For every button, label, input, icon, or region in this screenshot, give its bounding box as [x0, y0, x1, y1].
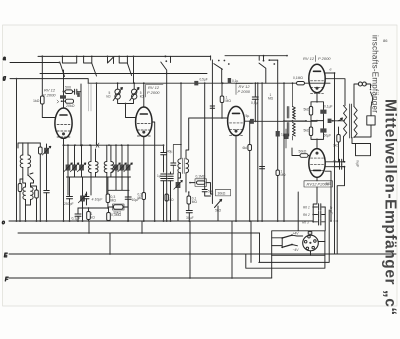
switch S5: [211, 56, 230, 194]
resistor R20: [165, 194, 168, 201]
wire bus-E: [9, 253, 396, 255]
capacitor C-Roe1: [313, 206, 325, 208]
switch S6: [259, 55, 278, 83]
switch S1: [60, 56, 77, 77]
svg-text:4·10µF: 4·10µF: [92, 198, 104, 202]
svg-text:0,1µF: 0,1µF: [324, 105, 333, 109]
capacitor C9b: [161, 179, 167, 181]
potentiometer P2: [132, 89, 137, 94]
capacitor C10a: [168, 174, 174, 176]
resistor R3: [66, 99, 74, 103]
capacitor C13: [252, 97, 258, 99]
wire V5 right3: [325, 171, 331, 221]
wire V2 anode: [143, 83, 145, 107]
svg-text:MΩ: MΩ: [192, 200, 198, 204]
wire v x89: [88, 221, 90, 233]
svg-text:o: o: [2, 220, 5, 226]
svg-text:Rö 2: Rö 2: [303, 213, 310, 217]
svg-text:0,1µF: 0,1µF: [72, 217, 81, 221]
wire V5 right1: [325, 161, 344, 163]
wire V1-anode-top: [63, 70, 65, 108]
output box2: [356, 144, 371, 156]
wire antenna-top: [18, 143, 40, 155]
trimmer CT1: [66, 165, 71, 171]
switch S7: [366, 84, 373, 98]
svg-text:30kΩ: 30kΩ: [113, 211, 121, 215]
wire V4 right screen: [325, 79, 345, 106]
wire T3: [284, 83, 306, 140]
resistor R8 boxed: [197, 181, 206, 184]
capacitor C-blob1 0,5uF: [194, 81, 198, 86]
svg-text:+4V: +4V: [293, 232, 300, 236]
capacitor C22 grid: [210, 106, 214, 108]
wire T4 primary bottom: [343, 137, 345, 162]
svg-text:30µF: 30µF: [186, 216, 194, 220]
trimmer CT7: [176, 182, 181, 188]
capacitor C-ant 500pF: [44, 191, 50, 193]
wire bus-a: [38, 55, 287, 58]
transformer T3 core: [287, 107, 289, 137]
resistor R-ant2: [35, 190, 39, 198]
resistor R19: [142, 193, 145, 200]
resistor R2 500: [65, 90, 73, 94]
capacitor C5: [125, 197, 131, 199]
capacitor C20: [340, 164, 342, 169]
capacitor C11: [202, 190, 207, 192]
switch S4: [161, 56, 171, 73]
tube V5 RV12 P2000: [309, 149, 325, 178]
svg-text:MΩ: MΩ: [138, 196, 144, 200]
wire S4 drop: [166, 74, 168, 222]
wire rail y145.2: [64, 144, 164, 146]
capacitor C-Roe3: [313, 221, 325, 223]
wire v x259.5: [259, 233, 261, 262]
resistor R15 50kOhm: [300, 154, 308, 158]
switch S2: [83, 56, 97, 77]
svg-text:MΩ: MΩ: [268, 97, 274, 101]
svg-text:0,5µ: 0,5µ: [251, 101, 258, 105]
resistor R7 30kOhm: [114, 205, 124, 209]
resistor R14 5kOhm: [309, 127, 312, 136]
resistor R18: [276, 170, 279, 176]
svg-text:40µ: 40µ: [167, 150, 173, 154]
wire caps right: [324, 207, 326, 231]
wire x81: [80, 84, 82, 145]
wire T2 secondary: [186, 118, 228, 159]
wire V4 bottom: [316, 93, 318, 102]
wire V5 bottom: [313, 177, 317, 221]
svg-text:in µF: in µF: [356, 160, 360, 167]
coil L1: [20, 155, 23, 168]
wire bus-o: [9, 220, 313, 222]
capacitor C21: [276, 131, 280, 137]
wire V3 anode right: [244, 120, 317, 122]
svg-text:MΩ: MΩ: [111, 199, 117, 203]
resistor R10 1MOhm: [220, 96, 224, 103]
svg-text:Rö 3: Rö 3: [302, 220, 309, 224]
transformer T3 coil upper: [293, 107, 296, 120]
svg-text:RV 12: RV 12: [303, 56, 315, 61]
crossing marker: [96, 143, 99, 147]
svg-text:0,1µ: 0,1µ: [232, 79, 238, 83]
wire v x133.5: [133, 56, 135, 83]
svg-text:5kΩ: 5kΩ: [215, 209, 221, 213]
svg-text:5kΩ: 5kΩ: [304, 129, 310, 133]
svg-text:0,1MΩ: 0,1MΩ: [293, 76, 303, 80]
capacitor C3 250pF: [67, 197, 73, 199]
svg-text:e: e: [330, 68, 332, 72]
resistor R13 5kOhm: [309, 107, 312, 116]
wire rail2 y177: [67, 176, 131, 178]
trimmer C4: [80, 196, 85, 202]
wire bus-mid: [40, 73, 207, 75]
svg-text:20kΩ: 20kΩ: [65, 104, 75, 108]
wire v x142: [141, 221, 143, 233]
svg-text:MΩ: MΩ: [281, 173, 287, 177]
wire bus-F: [9, 277, 272, 279]
wire left-vertical x16.5: [16, 79, 18, 221]
connector key nub: [308, 232, 312, 235]
transformer T4 core: [350, 104, 352, 138]
tube V4 RV12 P2000: [309, 64, 325, 93]
svg-text:50µ: 50µ: [208, 190, 214, 194]
resistor R4: [106, 194, 110, 203]
wire bus-o-return: [18, 232, 260, 234]
tube V3 RV12 P2000: [228, 106, 245, 135]
wire v x262: [261, 83, 263, 221]
svg-text:0,5µF: 0,5µF: [200, 78, 208, 82]
wire y208: [78, 207, 108, 209]
trimmer CT6: [126, 165, 131, 171]
svg-text:in µF: in µF: [329, 207, 333, 216]
resistor R-ant1: [18, 184, 22, 192]
wire x96.5: [96, 83, 98, 145]
H-network V4: wires: [311, 102, 324, 121]
transformer T2 primary: [178, 159, 181, 173]
svg-text:50kΩ: 50kΩ: [299, 150, 307, 154]
headphone jack: [358, 82, 362, 86]
wire bus-main: [88, 82, 330, 84]
arrow tap T4: [338, 118, 342, 121]
capacitor C12: [186, 211, 192, 213]
wire grid V1: [42, 56, 55, 117]
wire L3-top: [23, 181, 34, 188]
svg-text:1µ: 1µ: [157, 174, 161, 178]
wire x298: [297, 192, 299, 231]
capacitor C10b: [168, 179, 174, 181]
wire x284 vertical: [283, 83, 285, 221]
connector box: [272, 231, 325, 256]
capacitor C18: [284, 134, 289, 139]
capacitor C17 coupling2: [328, 119, 332, 123]
svg-text:250pF: 250pF: [64, 202, 74, 206]
resistor R17 box: [367, 116, 375, 125]
capacitor C16: [320, 128, 326, 132]
wire v x190: [189, 221, 191, 278]
connector socket: [303, 235, 319, 251]
svg-text:1kΩ: 1kΩ: [333, 144, 339, 148]
resistor R12 0.1MOhm: [297, 82, 305, 85]
wire T4 sec top to phones: [354, 84, 359, 107]
svg-text:86: 86: [383, 38, 388, 43]
wire bus-g-left: [10, 79, 88, 84]
wire output drop: [337, 167, 344, 254]
capacitor C-Roe2: [313, 214, 325, 216]
svg-text:P 2000: P 2000: [318, 56, 331, 61]
wire socket-right: [318, 241, 325, 243]
resistor R9: [187, 196, 191, 204]
capacitor C7: [161, 153, 167, 155]
resistor R16 1kOhm: [337, 135, 340, 143]
wire T2 bottoms: [178, 173, 186, 192]
resistor R1 1kOhm: [41, 96, 45, 104]
wire x88.5 faint: [88, 84, 90, 111]
wire a-stub: [10, 62, 60, 64]
wire v x110: [109, 233, 111, 254]
wire rail3 y190.3: [108, 177, 129, 190]
capacitor C8: [171, 163, 176, 165]
capacitor C6: [75, 214, 81, 216]
wire v x258: [257, 83, 259, 221]
svg-text:MΩ: MΩ: [226, 99, 232, 103]
resistor R-vert x40: [39, 147, 43, 154]
capacitor C-blob2: [228, 78, 231, 83]
capacitor C15: [320, 110, 326, 114]
wire V2 cathode: [143, 137, 145, 221]
svg-text:Rö 1: Rö 1: [303, 206, 310, 210]
wire v x277.7: [277, 60, 279, 221]
svg-text:50µF: 50µF: [324, 134, 332, 138]
transformer T2 core: [183, 158, 185, 174]
trimmer CT5: [120, 165, 125, 171]
capacitor C19: [340, 159, 342, 164]
coil L4: [31, 187, 34, 200]
wire L3L4-bottom: [26, 200, 31, 222]
svg-text:5kΩ: 5kΩ: [304, 108, 310, 112]
wire V1 cathode down: [63, 138, 65, 221]
wire V5 right2: [325, 166, 344, 168]
svg-text:P 2000: P 2000: [147, 90, 160, 95]
svg-text:g: g: [3, 76, 6, 82]
wire F-to-box: [271, 255, 273, 278]
svg-text:1kΩ: 1kΩ: [33, 99, 40, 103]
capacitor C23: [84, 197, 89, 199]
coil L5: [88, 162, 91, 173]
capacitor C2: [73, 91, 75, 93]
svg-text:inschafts-Empfänger: inschafts-Empfänger: [371, 35, 380, 113]
H-network V5-grid: [311, 121, 324, 149]
svg-text:P 2000: P 2000: [238, 89, 251, 94]
wire pots-bottom: [118, 99, 136, 117]
trimmer CT0: [44, 148, 49, 154]
svg-text:kΩ: kΩ: [91, 216, 96, 220]
coil L2: [28, 155, 31, 168]
trimmer CT4: [114, 165, 119, 171]
transformer T3 coil lower: [293, 123, 296, 136]
resistor R6: [107, 213, 111, 221]
svg-text:6kΩ: 6kΩ: [243, 146, 250, 150]
switch S3: [118, 56, 131, 76]
switch S+4V: [281, 237, 283, 239]
wire T2 primary top: [180, 83, 182, 159]
switch S2b: [108, 56, 114, 63]
svg-text:30kΩ: 30kΩ: [218, 191, 226, 195]
switch S-4V: [281, 246, 283, 248]
resistor R11 6kOhm: [248, 145, 252, 151]
transformer T2 secondary: [186, 159, 189, 173]
transformer T4 primary zigzag: [344, 106, 347, 137]
svg-text:−4V: −4V: [293, 248, 300, 252]
wire v x232: [231, 221, 233, 278]
potentiometer P3: [215, 199, 222, 207]
transformer T4 secondary zigzag: [354, 107, 357, 138]
coil L6: [104, 162, 107, 173]
svg-text:5µ: 5µ: [246, 114, 250, 118]
svg-text:P 2000: P 2000: [43, 93, 56, 98]
trimmer CT3: [79, 165, 84, 171]
svg-text:Mittelwellen-Empfänger „c“: Mittelwellen-Empfänger „c“: [382, 99, 399, 316]
wire box bottom outer2: [246, 254, 325, 268]
wire V2 right: [152, 122, 155, 221]
wire V3 cathode: [235, 136, 237, 221]
anode cap V1: [60, 95, 66, 98]
wire v x251: [250, 221, 252, 262]
svg-text:500: 500: [65, 86, 71, 90]
coil L3: [23, 187, 26, 200]
trimmer CT2: [72, 165, 77, 171]
wire socket-bottom: [310, 251, 312, 256]
wire V4 right anode: [325, 72, 334, 74]
capacitor C14 coupling: [250, 119, 254, 124]
svg-text:kΩ: kΩ: [107, 95, 112, 99]
tube V2 RV12 P2000: [136, 107, 152, 137]
wire L1L2-bottom: [23, 168, 28, 184]
svg-text:a: a: [3, 56, 6, 62]
switch S-band: [28, 173, 34, 181]
capacitor C9a: [161, 174, 167, 176]
resistor R5 1kOhm: [87, 212, 91, 220]
tube V1 RV12 P2000: [55, 108, 72, 138]
wire right column x334.5: [334, 73, 336, 254]
potentiometer P1: [115, 89, 120, 94]
capacitor C24: [260, 167, 265, 169]
svg-text:300: 300: [326, 182, 332, 186]
wire box bottom outer1: [259, 210, 329, 262]
label box V5: [304, 181, 333, 187]
